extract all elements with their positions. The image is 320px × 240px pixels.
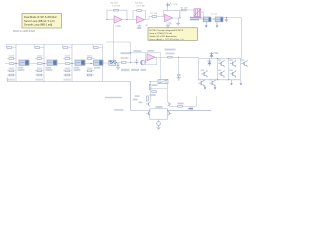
- FC4 top resistor R20: [93, 44, 103, 48]
- ground G5: [177, 18, 179, 23]
- node J11: [150, 81, 151, 82]
- node J16: [217, 58, 218, 59]
- capacitor C6: [177, 75, 180, 78]
- node J1: [107, 19, 108, 20]
- resistor R9: [147, 96, 149, 101]
- op-amp U3: [147, 54, 155, 61]
- wire U1A out: [123, 19, 137, 21]
- transistor Q10: [229, 70, 236, 78]
- label R6: [166, 53, 175, 55]
- label OUT: [189, 108, 194, 110]
- node J3: [180, 17, 181, 18]
- svg-text:R3 2k05: R3 2k05: [111, 3, 120, 5]
- wire top bus: [150, 88, 167, 90]
- wire trimmer drop: [167, 8, 169, 11]
- node J8: [130, 62, 131, 63]
- label T1: [190, 17, 202, 19]
- label D1: [214, 52, 218, 54]
- note box N1: [22, 14, 62, 29]
- wire X1 left: [150, 81, 158, 83]
- svg-text:Smooth Loop (MB-1 adj): Smooth Loop (MB-1 adj): [24, 22, 52, 26]
- resistor R7: [149, 84, 151, 89]
- label net2: [114, 109, 124, 111]
- wire input bottom block: [131, 109, 150, 111]
- svg-text:R5 1k0: R5 1k0: [151, 13, 158, 15]
- node J6: [226, 17, 227, 18]
- wire Q2 collector: [166, 84, 168, 102]
- resistor R5: [121, 62, 126, 64]
- xtal X1: [158, 80, 168, 84]
- svg-text:NOTE: Pre-amp integrated IF-SP: NOTE: Pre-amp integrated IF-SP-S: [150, 29, 184, 32]
- ground G3: [231, 80, 233, 83]
- node J15: [228, 79, 229, 80]
- node J4: [203, 19, 204, 20]
- wire bias bus: [106, 42, 131, 63]
- svg-text:0.1% MF: 0.1% MF: [112, 5, 121, 7]
- capacitor C2: [225, 17, 228, 22]
- wire top bus cells: [7, 43, 103, 45]
- ground U2: [166, 26, 170, 28]
- op-amp U1A: [114, 16, 122, 23]
- wire U3 out: [156, 56, 168, 58]
- output block frame: [199, 59, 242, 80]
- capacitor C3: [117, 63, 120, 68]
- net line OUT: [167, 109, 211, 111]
- wire T1 to L1: [186, 10, 203, 19]
- resistor R3: [152, 16, 157, 18]
- op-amp U1A input marks: [114, 18, 116, 22]
- wire bias top: [131, 53, 161, 80]
- filter cell FC2: [33, 44, 57, 81]
- svg-text:loop = (Ampl) + 1/2Π FR mVpp +: loop = (Ampl) + 1/2Π FR mVpp + Vs: [150, 38, 184, 41]
- svg-text:0.1% MF: 0.1% MF: [137, 5, 146, 7]
- ground U1B: [138, 24, 140, 26]
- label bias2: [134, 50, 142, 52]
- ground G1: [204, 85, 206, 88]
- op-amp U1B input marks: [137, 18, 139, 22]
- wire R3 to U2: [157, 17, 165, 19]
- node J7: [116, 62, 117, 63]
- node FC4: [90, 63, 91, 64]
- svg-text:Servo Loop (RB ref, 5 mV): Servo Loop (RB ref, 5 mV): [24, 19, 55, 23]
- wire block to out: [195, 96, 197, 106]
- label wire top: [165, 49, 176, 51]
- filter cell FC4 rail: [102, 44, 104, 81]
- label U3: [148, 50, 155, 52]
- FC4 resistor stubs: [87, 59, 95, 76]
- wire cell links: [29, 63, 61, 65]
- resistor R6: [168, 56, 173, 58]
- transistor Q9: [218, 70, 225, 78]
- FC4 signal wire: [85, 63, 94, 65]
- op-amp U1B: [137, 16, 145, 23]
- diode D1: [209, 52, 213, 59]
- wire tail: [158, 119, 160, 122]
- op-amp stage U1A feedback loop wire: [107, 10, 127, 19]
- body box U4: [150, 109, 168, 119]
- wire S1 in: [103, 62, 109, 64]
- node J10: [178, 57, 179, 58]
- resistor R4: [182, 9, 187, 11]
- wire J10 drop: [178, 57, 180, 74]
- transistor Q19: [198, 79, 205, 87]
- wire U1B out: [145, 17, 152, 20]
- node J9: [136, 62, 137, 63]
- ground G2: [214, 85, 216, 88]
- op-amp U2 feedback loop: [163, 11, 179, 18]
- label FC4: [94, 67, 101, 69]
- svg-text:Switch S1 = R21 Attenuation: Switch S1 = R21 Attenuation: [150, 35, 178, 38]
- wire Q1 collector: [149, 82, 151, 102]
- wire right rail: [240, 17, 242, 58]
- label R10: [178, 103, 184, 105]
- wire LC chain: [198, 17, 241, 19]
- label bias: [121, 52, 131, 54]
- label R8: [150, 94, 156, 96]
- inductor L2: [215, 17, 223, 22]
- label U4: [156, 106, 163, 108]
- node J5: [214, 19, 215, 20]
- diode D2: [207, 59, 211, 67]
- filter cell FC3: [61, 44, 85, 81]
- label R5: [121, 57, 129, 59]
- transistor Q7: [241, 59, 248, 67]
- wire S1 out: [116, 62, 122, 64]
- ground G4: [240, 80, 242, 83]
- wire R6 to block: [172, 56, 199, 58]
- transformer T1: [194, 9, 201, 16]
- feedback loop U3: [145, 57, 157, 65]
- resistor R2: [137, 10, 142, 12]
- filter cell FC1: [5, 44, 29, 81]
- label Q1c: [139, 102, 143, 104]
- ground stub L1: [205, 22, 207, 26]
- svg-text:MAIN IF AMPLIFIER: MAIN IF AMPLIFIER: [13, 30, 35, 33]
- node J14: [217, 79, 218, 80]
- op-amp stage U1B feedback loop wire: [133, 11, 146, 20]
- wire U2 out: [173, 10, 181, 18]
- ground I1: [158, 125, 160, 127]
- switch S1: [109, 60, 116, 65]
- node J2: [127, 19, 128, 20]
- wire input U1A: [107, 19, 114, 21]
- ground stub L2: [216, 22, 218, 26]
- inductor FC4 box: [94, 60, 104, 65]
- labels row under C4: [121, 69, 130, 71]
- svg-text:Dual Mode IF-SP-S 200 kHz: Dual Mode IF-SP-S 200 kHz: [24, 15, 57, 19]
- transistor Q6: [229, 59, 236, 67]
- transistor Q5: [218, 59, 225, 67]
- label Q1a: [135, 95, 140, 97]
- inductor L1: [203, 17, 211, 22]
- transistor Q2: [167, 102, 171, 106]
- label Q1b: [133, 99, 138, 101]
- resistor R8: [152, 91, 157, 93]
- bus wire B1: [7, 78, 131, 111]
- svg-text:L2 1u5: L2 1u5: [211, 14, 218, 16]
- svg-text:Gain = 217dB (TO-Left): Gain = 217dB (TO-Left): [150, 32, 173, 35]
- wire label VAS: [105, 97, 122, 98]
- node J17: [228, 58, 229, 59]
- op-amp U2: [165, 14, 173, 21]
- svg-text:U2A: U2A: [167, 22, 172, 26]
- transistor Q4: [168, 111, 172, 116]
- capacitor C5 polarized: [141, 60, 146, 65]
- node J12: [149, 110, 150, 111]
- wire U1A drop: [113, 24, 115, 60]
- wire R5 out: [126, 62, 136, 64]
- label R7: [152, 84, 158, 86]
- node J13: [167, 110, 168, 111]
- transistor Q1: [146, 102, 150, 106]
- wire C5 to U3: [145, 62, 147, 64]
- note box N2: [148, 28, 198, 41]
- svg-text:R9 75R: R9 75R: [181, 7, 189, 9]
- transistor Q8: [201, 70, 208, 78]
- resistor R10: [178, 105, 183, 107]
- resistor R1: [114, 9, 119, 11]
- trimmer C1: [166, 3, 171, 8]
- svg-text:U1A: U1A: [116, 24, 121, 28]
- capacitor C4: [135, 59, 138, 65]
- wire out right: [169, 105, 196, 107]
- transistor Q20: [209, 79, 216, 87]
- transistor Q3: [146, 111, 150, 116]
- ground C3: [116, 67, 120, 69]
- svg-text:C7 22p: C7 22p: [171, 4, 179, 6]
- node Jb: [130, 52, 131, 53]
- svg-text:R4 2k05: R4 2k05: [135, 3, 144, 5]
- current source I1: [157, 122, 161, 126]
